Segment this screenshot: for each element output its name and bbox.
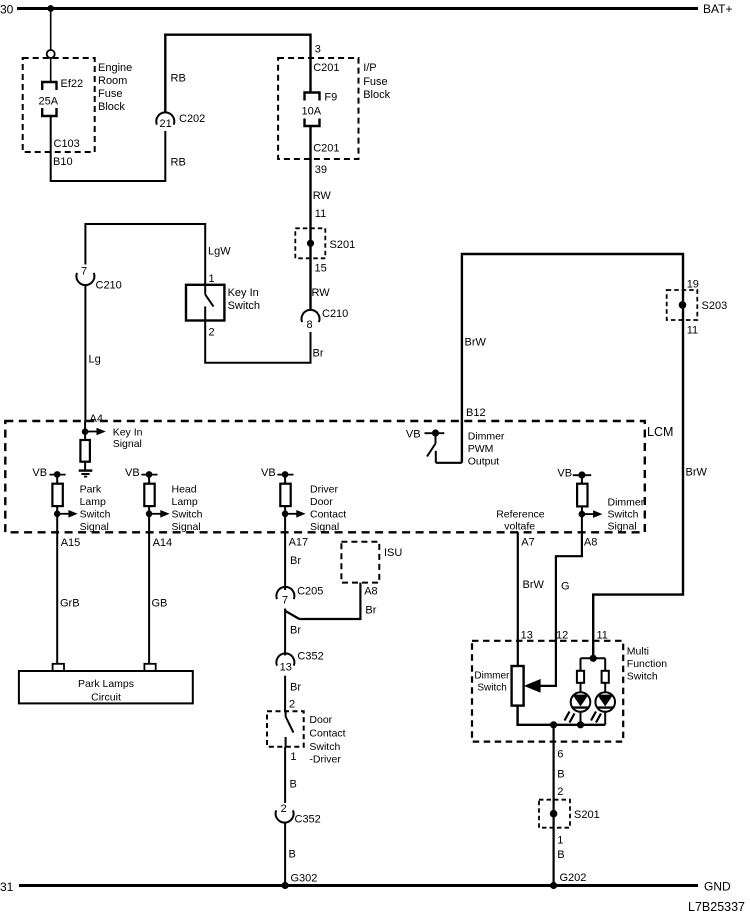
svg-text:Switch: Switch [228, 300, 260, 312]
svg-text:Lamp: Lamp [172, 496, 198, 508]
svg-text:Reference: Reference [496, 509, 545, 521]
svg-text:BrW: BrW [686, 467, 708, 479]
svg-text:ISU: ISU [384, 547, 402, 559]
Dimmer Switch potentiometer [474, 666, 523, 706]
bus 31 / GND bottom rail [0, 880, 731, 895]
svg-text:G302: G302 [291, 873, 318, 885]
svg-text:21: 21 [160, 118, 172, 130]
svg-text:B: B [557, 849, 564, 861]
svg-text:Park Lamps: Park Lamps [78, 678, 134, 690]
svg-text:15: 15 [315, 263, 327, 275]
wiper arrow [524, 679, 541, 693]
svg-text:Function: Function [627, 658, 667, 670]
svg-text:Lamp: Lamp [80, 496, 106, 508]
svg-text:Br: Br [313, 348, 324, 360]
svg-text:L7B25337: L7B25337 [688, 900, 745, 914]
svg-text:Output: Output [468, 456, 500, 468]
svg-text:A8: A8 [584, 537, 597, 549]
svg-text:1: 1 [557, 835, 563, 847]
svg-text:2: 2 [289, 699, 295, 711]
svg-text:Switch: Switch [627, 671, 658, 683]
svg-text:C352: C352 [297, 651, 323, 663]
svg-text:7: 7 [282, 595, 288, 607]
svg-text:RB: RB [171, 157, 186, 169]
svg-text:31: 31 [0, 880, 14, 894]
wire A14 / GB [148, 532, 150, 664]
svg-text:Switch: Switch [172, 509, 203, 521]
svg-text:G202: G202 [560, 872, 587, 884]
svg-text:VB: VB [557, 468, 572, 480]
junction: left LED on bus [577, 721, 584, 728]
svg-text:Br: Br [290, 555, 301, 567]
svg-text:LCM: LCM [647, 425, 673, 439]
wire pin 6 / B down to S201 [552, 725, 554, 800]
svg-text:A14: A14 [153, 537, 173, 549]
svg-text:-Driver: -Driver [309, 754, 341, 766]
wire B: S201 to G202 [552, 800, 554, 886]
svg-text:G: G [561, 581, 570, 593]
Dimmer Switch Signal: VB, resistor, node, arrow [557, 468, 644, 533]
fuse F9 10A [302, 92, 338, 127]
LCM module box (dashed) [5, 421, 673, 532]
I/P Fuse Block (dashed) [278, 58, 390, 159]
Park Lamps Circuit block [19, 664, 193, 704]
junction: pin6 tap on LED bus [550, 721, 557, 728]
svg-text:VB: VB [261, 467, 276, 479]
svg-text:Dimmer: Dimmer [608, 497, 645, 509]
wire A8 / G to Dimmer wiper [540, 532, 582, 686]
wire B: switch to C352-2 [284, 747, 286, 803]
svg-text:C210: C210 [322, 308, 348, 320]
svg-text:F9: F9 [324, 92, 337, 104]
svg-text:B: B [289, 849, 296, 861]
svg-text:A7: A7 [521, 537, 534, 549]
wire A17 / Br down to C205 [284, 532, 286, 590]
svg-text:11: 11 [315, 208, 326, 220]
svg-text:B12: B12 [466, 407, 486, 419]
svg-text:RW: RW [312, 287, 331, 299]
svg-text:I/P: I/P [363, 62, 376, 74]
svg-text:C202: C202 [179, 113, 205, 125]
svg-text:S203: S203 [702, 300, 728, 312]
branch wire to ISU A8 [285, 583, 360, 619]
wire A15 / GrB [56, 532, 58, 664]
ISU module box (dashed) [341, 542, 402, 583]
connector C352 pin 13 [276, 651, 323, 674]
svg-text:GrB: GrB [60, 598, 80, 610]
svg-text:Switch: Switch [80, 509, 111, 521]
svg-text:PWM: PWM [468, 443, 494, 455]
svg-text:BrW: BrW [465, 337, 487, 349]
wire Lg: C210-7 down to LCM [84, 285, 86, 421]
svg-text:8: 8 [307, 319, 313, 331]
wire A7 / BrW to Dimmer Switch [517, 532, 519, 666]
svg-text:A17: A17 [289, 537, 309, 549]
wire Br: C210-8 down, left, up to Key In Switch pin2 [205, 321, 310, 363]
svg-text:Head: Head [172, 484, 197, 496]
svg-text:Door: Door [309, 714, 332, 726]
svg-text:Signal: Signal [172, 521, 201, 533]
svg-text:19: 19 [687, 279, 699, 291]
svg-text:10A: 10A [302, 106, 322, 118]
svg-text:Switch: Switch [309, 741, 340, 753]
svg-text:1: 1 [290, 751, 296, 763]
wire Br: C352-13 to Door Contact Switch [284, 676, 286, 712]
svg-text:B: B [557, 769, 564, 781]
svg-text:Signal: Signal [80, 521, 109, 533]
svg-text:Br: Br [365, 605, 376, 617]
Engine Room Fuse Block (dashed) [23, 58, 133, 152]
svg-text:C352: C352 [295, 814, 321, 826]
svg-text:Circuit: Circuit [91, 692, 121, 704]
resistor (right LED) [602, 671, 609, 683]
svg-text:LgW: LgW [208, 246, 231, 258]
splice S201 (top) [295, 228, 355, 258]
bus 30 / BAT+ top rail [0, 2, 732, 17]
wire LgW: C210-7 up, across, down to Key In Switch pin1 [85, 224, 205, 285]
connector C202 pin 21 [156, 112, 205, 130]
svg-text:VB: VB [32, 467, 47, 479]
ground (inside LCM) [79, 462, 93, 477]
svg-text:RW: RW [313, 190, 332, 202]
svg-text:2: 2 [209, 327, 215, 339]
svg-text:C210: C210 [96, 280, 122, 292]
svg-text:C201: C201 [313, 143, 339, 155]
svg-text:Signal: Signal [113, 438, 142, 450]
wire connector to fuse Ef22 [50, 58, 52, 82]
svg-text:Switch: Switch [477, 683, 506, 694]
svg-text:6: 6 [557, 749, 563, 761]
svg-text:1: 1 [209, 273, 215, 285]
connector C210 pin 8 [302, 308, 349, 331]
svg-text:GND: GND [704, 880, 731, 894]
Door Contact Switch -Driver (dashed) with blade [267, 711, 346, 765]
svg-text:30: 30 [0, 3, 14, 17]
wire B: C352-2 to G302 [284, 822, 286, 886]
svg-text:Br: Br [290, 682, 301, 694]
svg-text:A8: A8 [364, 586, 377, 598]
svg-text:Room: Room [98, 75, 127, 87]
wire RW: F9 down through S201 to C210 [309, 126, 311, 312]
svg-text:GB: GB [152, 598, 168, 610]
connector C210 pin 7 [76, 266, 121, 292]
junction G202 on bus 31 [550, 882, 557, 889]
connector ring [47, 50, 55, 58]
svg-text:Br: Br [290, 625, 301, 637]
svg-text:11: 11 [687, 325, 698, 337]
svg-text:Key In: Key In [113, 427, 143, 439]
svg-text:Contact: Contact [309, 727, 345, 739]
svg-text:Signal: Signal [608, 521, 637, 533]
Multi Function Switch box (dashed) [472, 641, 667, 742]
connector C352 pin 2 [276, 803, 321, 826]
svg-text:Key In: Key In [228, 287, 259, 299]
Dimmer PWM Output: VB, switch [406, 429, 505, 468]
Driver Door Contact Signal: VB, resistor, node, arrow [261, 467, 346, 533]
svg-text:A15: A15 [61, 537, 81, 549]
svg-text:VB: VB [125, 467, 140, 479]
wire pot bottom to LED bus [518, 706, 606, 725]
svg-text:B: B [290, 779, 297, 791]
svg-text:Block: Block [363, 89, 390, 101]
Head Lamp Switch Signal: VB, resistor, node, arrow [125, 467, 203, 533]
svg-text:Fuse: Fuse [98, 88, 122, 100]
svg-text:2: 2 [557, 786, 563, 798]
svg-text:Driver: Driver [310, 484, 339, 496]
LED branch top: junction + rail [581, 655, 606, 671]
svg-text:VB: VB [406, 429, 421, 441]
fuse Ef22 25A [39, 78, 84, 116]
svg-text:BrW: BrW [523, 579, 545, 591]
svg-text:voltafe: voltafe [504, 521, 535, 533]
wire B12 / BrW net: LCM up, across top, down through S203 to MFS pin 11 [462, 254, 683, 658]
svg-text:2: 2 [281, 803, 287, 815]
LED D1 (left) [565, 683, 591, 725]
LED D2 (right) [591, 683, 615, 725]
resistor (key in pull-down) [80, 440, 90, 462]
connector C205 pin 7 [276, 586, 323, 607]
svg-text:Ef22: Ef22 [61, 78, 84, 90]
svg-text:Block: Block [98, 101, 125, 113]
wire from bus 30 down to connector [50, 9, 52, 51]
svg-text:Door: Door [310, 496, 333, 508]
junction on bus 30 [47, 5, 54, 12]
svg-text:Switch: Switch [608, 509, 639, 521]
svg-text:Park: Park [80, 484, 102, 496]
Key In Switch [186, 273, 260, 339]
wire B10: fuse to corner to RB riser [51, 116, 166, 182]
svg-text:S201: S201 [574, 809, 600, 821]
wire Br below C205 with branch to ISU [284, 609, 286, 656]
svg-text:3: 3 [315, 44, 321, 56]
svg-text:C205: C205 [297, 586, 323, 598]
svg-text:Lg: Lg [89, 354, 101, 366]
svg-text:25A: 25A [39, 96, 59, 108]
svg-text:Fuse: Fuse [363, 76, 387, 88]
svg-text:13: 13 [280, 662, 292, 674]
Reference voltage label [496, 509, 545, 533]
svg-text:B10: B10 [53, 156, 73, 168]
svg-text:Engine: Engine [98, 62, 132, 74]
svg-text:C103: C103 [54, 138, 80, 150]
Key In Signal input: wire, node, arrow, resistor, ground [82, 421, 143, 450]
svg-text:7: 7 [81, 266, 87, 278]
svg-text:Dimmer: Dimmer [468, 431, 505, 443]
splice S201 (bottom) [539, 800, 600, 828]
resistor (left LED) [577, 671, 584, 683]
svg-text:39: 39 [315, 164, 327, 176]
junction G302 on bus 31 [282, 882, 289, 889]
svg-text:BAT+: BAT+ [703, 2, 732, 16]
svg-text:S201: S201 [330, 239, 356, 251]
svg-text:Dimmer: Dimmer [474, 671, 510, 682]
splice S203 [667, 290, 728, 320]
svg-text:Multi: Multi [627, 646, 649, 658]
svg-text:RB: RB [171, 73, 186, 85]
wire RB upper: C202 up, across, down to F9 [165, 35, 310, 113]
svg-text:Signal: Signal [310, 521, 339, 533]
svg-text:A4: A4 [90, 413, 103, 425]
svg-text:Contact: Contact [310, 509, 346, 521]
Park Lamp Switch Signal: VB, resistor, node, arrow [32, 467, 110, 533]
svg-text:C201: C201 [313, 62, 339, 74]
